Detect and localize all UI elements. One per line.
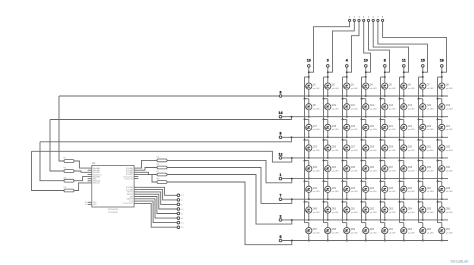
svg-text:yel-LED: yel-LED (408, 191, 416, 193)
row port 8 (279, 136, 282, 139)
LED D7 (419, 77, 434, 97)
wire U1 to port 15 (138, 201, 177, 223)
junction column 13 bypass row 4 (304, 139, 306, 141)
svg-text:yel-LED: yel-LED (389, 129, 397, 131)
wire column 8 bypass seg 4 (380, 140, 382, 161)
svg-text:7: 7 (280, 194, 282, 198)
wire left riser net 12 (32, 151, 65, 190)
wire column 13 jog row 4 (305, 139, 309, 141)
svg-text:D10: D10 (332, 104, 337, 107)
svg-text:yel-LED: yel-LED (446, 88, 454, 90)
svg-text:3: 3 (327, 59, 329, 63)
junction column 15 header feed (422, 71, 424, 73)
wire column 15 jog row 4 (419, 139, 423, 141)
wire column 8 jog row 3 (381, 118, 385, 120)
junction column 8 bypass row 5 (380, 160, 382, 162)
wire column 3 jog row 8 (324, 222, 328, 224)
wire column 11 bypass seg 2 (399, 99, 401, 120)
wire column 11 bypass seg 4 (399, 140, 401, 161)
row port 14 (279, 115, 282, 118)
svg-text:yel-LED: yel-LED (427, 129, 435, 131)
wire column 3 bypass seg 5 (323, 161, 325, 182)
wire column 4 bypass seg 3 (342, 119, 344, 140)
wire column 16 pin drop (441, 67, 443, 77)
svg-text:yel-LED: yel-LED (370, 212, 378, 214)
svg-text:yel-LED: yel-LED (408, 88, 416, 90)
LED D51 (343, 202, 358, 221)
column port 11 (403, 65, 406, 68)
wire column 16 bypass seg 7 (437, 202, 439, 223)
column port 15 (422, 65, 425, 68)
junction column 10 bypass row 3 (361, 118, 363, 120)
junction net 1 riser (291, 178, 293, 180)
wire row 5 bus (282, 240, 448, 242)
junction column 11 bypass row 6 (399, 180, 401, 182)
wire column 4 jog row 3 (343, 118, 347, 120)
svg-text:yel-LED: yel-LED (313, 88, 321, 90)
svg-text:D63: D63 (427, 228, 432, 231)
wire column 13 jog row 2 (305, 98, 309, 100)
resistor R4 (64, 187, 75, 192)
svg-text:yel-LED: yel-LED (446, 212, 454, 214)
port 4 at U1 (177, 203, 180, 206)
wire column 3 bypass seg 6 (323, 181, 325, 202)
column port 10 (365, 65, 368, 68)
LED D50 (324, 202, 339, 221)
wire column 11 bypass seg 3 (399, 119, 401, 140)
wire column 8 bypass seg 5 (380, 161, 382, 182)
resistor R1 (64, 158, 75, 163)
LED D64 (438, 223, 453, 242)
LED D12 (362, 99, 377, 118)
LED D28 (362, 140, 377, 159)
LED D24 (438, 119, 453, 138)
wire column 15 bypass seg 6 (418, 181, 420, 202)
junction column 15 top jog (422, 76, 424, 78)
svg-text:D47: D47 (427, 187, 432, 190)
svg-text:D64: D64 (446, 228, 451, 231)
wire column 15 bypass seg 5 (418, 161, 420, 182)
junction column 8 bypass row 3 (380, 118, 382, 120)
header J1 pin 5 (367, 19, 369, 21)
svg-text:D44: D44 (370, 187, 375, 190)
svg-text:D57: D57 (313, 228, 318, 231)
svg-text:D46: D46 (408, 187, 413, 190)
junction column 16 bypass row 6 (437, 180, 439, 182)
LED D38 (400, 161, 415, 180)
wire column 11 jog row 6 (400, 180, 404, 182)
wire column 3 bypass seg 3 (323, 119, 325, 140)
wire column 13 jog row 5 (305, 160, 309, 162)
wire column 16 jog row 4 (438, 139, 442, 141)
wire header pin 7 to column 15 (378, 22, 428, 73)
header J1 pin 7 (377, 19, 379, 21)
wire column 4 bypass seg 4 (342, 140, 344, 161)
LED D8 (438, 77, 453, 97)
header J1 pin 2 (353, 19, 355, 21)
wire column 15 bypass seg 3 (418, 119, 420, 140)
svg-text:yel-LED: yel-LED (332, 109, 340, 111)
svg-text:11: 11 (402, 59, 406, 63)
wire row 12 bus (282, 157, 448, 159)
LED D19 (343, 119, 358, 138)
svg-text:yel-LED: yel-LED (332, 232, 340, 234)
svg-text:yel-LED: yel-LED (351, 232, 359, 234)
wire U1 to R6 (138, 168, 157, 171)
junction column 3 bypass row 5 (323, 160, 325, 162)
LED D20 (362, 119, 377, 138)
LED D4 (362, 77, 377, 97)
wire net 8 long feeder (40, 137, 292, 142)
junction column 10 bypass row 6 (361, 180, 363, 182)
svg-text:19: 19 (85, 204, 87, 206)
wire header pin 1 to column 13 (309, 22, 350, 73)
svg-text:1: 1 (280, 173, 282, 177)
junction column 4 bypass row 3 (342, 118, 344, 120)
row port 2 (279, 219, 282, 222)
wire net 1 resistor feeder (167, 160, 292, 182)
svg-text:yel-LED: yel-LED (408, 109, 416, 111)
LED D53 (381, 202, 396, 221)
wire column 13 jog row 6 (305, 180, 309, 182)
wire column 15 top jog (419, 76, 423, 78)
wire row 2 bus (282, 219, 448, 221)
LED D31 (419, 140, 434, 159)
junction column 4 bypass row 5 (342, 160, 344, 162)
wire column 3 jog row 4 (324, 139, 328, 141)
row port 9 (279, 95, 282, 98)
wire U1 to port 11 (138, 199, 177, 218)
svg-text:yel-LED: yel-LED (389, 212, 397, 214)
wire column 11 bypass seg 7 (399, 202, 401, 223)
wire column 13 jog row 3 (305, 118, 309, 120)
wire column 3 jog row 5 (324, 160, 328, 162)
svg-text:5: 5 (280, 235, 282, 239)
svg-text:yel-LED: yel-LED (427, 191, 435, 193)
svg-text:CircuitLab: CircuitLab (451, 259, 470, 264)
wire column 15 jog row 6 (419, 180, 423, 182)
row port 12 (279, 157, 282, 160)
svg-text:D27: D27 (351, 146, 356, 149)
junction net 8 riser (291, 136, 293, 138)
resistor R2 (64, 168, 75, 173)
LED D34 (324, 161, 339, 180)
junction column 4 header feed (346, 71, 348, 73)
LED D37 (381, 161, 396, 180)
svg-text:D54: D54 (408, 208, 413, 211)
svg-text:yel-LED: yel-LED (351, 109, 359, 111)
junction column 11 bypass row 4 (399, 139, 401, 141)
svg-text:yel-LED: yel-LED (427, 171, 435, 173)
svg-text:yel-LED: yel-LED (427, 212, 435, 214)
wire column 15 jog row 8 (419, 222, 423, 224)
LED D35 (343, 161, 358, 180)
wire net 2 resistor feeder (167, 175, 292, 225)
header J1 pin 8 (382, 19, 384, 21)
wire row 9 bus (282, 95, 448, 97)
wire column 13 bypass seg 4 (304, 140, 306, 161)
junction column 13 bypass row 7 (304, 201, 306, 203)
wire column 16 jog row 3 (438, 118, 442, 120)
junction column 11 header feed (403, 71, 405, 73)
header J1 pin 3 (358, 19, 360, 21)
svg-text:yel-LED: yel-LED (408, 232, 416, 234)
wire column 16 bypass seg 2 (437, 99, 439, 120)
LED D47 (419, 181, 434, 200)
junction column 3 header feed (327, 71, 329, 73)
LED D21 (381, 119, 396, 138)
LED D44 (362, 181, 377, 200)
LED D36 (362, 161, 377, 180)
wire column 10 jog row 7 (362, 201, 366, 203)
wire column 16 jog row 5 (438, 160, 442, 162)
svg-text:D13: D13 (389, 104, 394, 107)
wire column 15 jog row 5 (419, 160, 423, 162)
junction column 3 bypass row 2 (323, 98, 325, 100)
wire net 14 long feeder (50, 117, 292, 120)
wire column 8 jog row 6 (381, 180, 385, 182)
wire header pin 3 to column 4 (347, 22, 359, 73)
svg-text:D28: D28 (370, 146, 375, 149)
LED D1 (305, 77, 320, 97)
column port 16 (441, 65, 444, 68)
svg-text:8: 8 (280, 132, 282, 136)
junction column 16 top jog (441, 76, 443, 78)
wire R3 to U1 (74, 177, 88, 181)
junction column 13 bypass row 3 (304, 118, 306, 120)
junction column 8 header feed (384, 71, 386, 73)
svg-text:yel-LED: yel-LED (313, 109, 321, 111)
svg-text:D60: D60 (370, 228, 375, 231)
svg-text:yel-LED: yel-LED (370, 150, 378, 152)
port 8 at U1 (177, 212, 180, 215)
wire row 7 bus (282, 198, 448, 200)
svg-text:yel-LED: yel-LED (389, 171, 397, 173)
wire column 15 jog row 3 (419, 118, 423, 120)
wire column 10 bypass seg 5 (361, 161, 363, 182)
wire column 4 bypass seg 7 (342, 202, 344, 223)
wire column 13 bypass seg 5 (304, 161, 306, 182)
wire column 16 bypass seg 3 (437, 119, 439, 140)
svg-text:yel-LED: yel-LED (351, 88, 359, 90)
wire column 10 jog row 3 (362, 118, 366, 120)
svg-text:D30: D30 (408, 146, 413, 149)
wire header pin 6 to column 11 (373, 22, 408, 73)
wire column 11 bypass seg 6 (399, 181, 401, 202)
wire column 11 jog row 7 (400, 201, 404, 203)
LED D46 (400, 181, 415, 200)
svg-text:D58: D58 (332, 228, 337, 231)
LED D57 (305, 223, 320, 242)
wire column 13 bypass seg 7 (304, 202, 306, 223)
svg-text:D15: D15 (427, 104, 432, 107)
port 3 at U1 (177, 199, 180, 202)
svg-text:yel-LED: yel-LED (389, 150, 397, 152)
wire column 15 bypass seg 4 (418, 140, 420, 161)
wire column 8 bypass seg 3 (380, 119, 382, 140)
LED D9 (305, 99, 320, 118)
svg-text:D16: D16 (446, 104, 451, 107)
svg-text:yel-LED: yel-LED (408, 150, 416, 152)
wire column 13 jog row 8 (305, 222, 309, 224)
LED D55 (419, 202, 434, 221)
junction column 15 bypass row 6 (418, 180, 420, 182)
svg-text:yel-LED: yel-LED (313, 129, 321, 131)
wire column 3 bypass seg 7 (323, 202, 325, 223)
wire column 4 jog row 2 (343, 98, 347, 100)
resistor R3 (64, 177, 75, 182)
wire U1 to port 10 (138, 194, 177, 209)
svg-text:yel-LED: yel-LED (332, 212, 340, 214)
svg-text:yel-LED: yel-LED (313, 150, 321, 152)
wire column 3 jog row 7 (324, 201, 328, 203)
svg-text:yel-LED: yel-LED (370, 191, 378, 193)
LED D18 (324, 119, 339, 138)
LED D60 (362, 223, 377, 242)
resistor R7 (157, 171, 168, 176)
wire net 7 resistor feeder (167, 168, 292, 204)
wire R1 to U1 (74, 161, 88, 168)
LED D52 (362, 202, 377, 221)
wire column 3 pin drop (327, 67, 329, 77)
junction column 10 bypass row 7 (361, 201, 363, 203)
svg-text:D24: D24 (446, 125, 451, 128)
wire column 15 pin drop (422, 67, 424, 77)
wire column 13 top jog (305, 76, 309, 78)
wire column 11 pin drop (403, 67, 405, 77)
resistor R8 (157, 179, 168, 184)
wire header pin 8 to column 16 (383, 22, 447, 73)
wire column 11 top jog (400, 76, 404, 78)
LED D14 (400, 99, 415, 118)
LED D56 (438, 202, 453, 221)
svg-text:D26: D26 (332, 146, 337, 149)
wire column 4 bypass seg 2 (342, 99, 344, 120)
wire column 3 bypass seg 2 (323, 99, 325, 120)
wire U1 to port 8 (138, 197, 177, 214)
LED D25 (305, 140, 320, 159)
junction column 15 bypass row 5 (418, 160, 420, 162)
wire column 10 jog row 4 (362, 139, 366, 141)
svg-text:12: 12 (279, 152, 283, 156)
wire column 8 bypass seg 1 (380, 77, 382, 99)
junction column 16 bypass row 2 (437, 98, 439, 100)
LED D49 (305, 202, 320, 221)
svg-text:D18: D18 (332, 125, 337, 128)
svg-text:yel-LED: yel-LED (332, 129, 340, 131)
svg-text:D55: D55 (427, 208, 432, 211)
wire column 11 bypass seg 1 (399, 77, 401, 99)
junction column 3 bypass row 7 (323, 201, 325, 203)
LED D39 (419, 161, 434, 180)
junction net 7 riser (291, 198, 293, 200)
wire R4 to U1 (74, 183, 88, 191)
svg-text:D37: D37 (389, 166, 394, 169)
LED D26 (324, 140, 339, 159)
wire column 3 bypass seg 1 (323, 77, 325, 99)
svg-text:yel-LED: yel-LED (370, 109, 378, 111)
svg-text:9: 9 (280, 90, 282, 94)
header J1 pin 4 (363, 19, 365, 21)
wire column 3 bypass seg 4 (323, 140, 325, 161)
svg-text:yel-LED: yel-LED (332, 88, 340, 90)
svg-text:yel-LED: yel-LED (351, 150, 359, 152)
junction column 8 bypass row 6 (380, 180, 382, 182)
LED D59 (343, 223, 358, 242)
wire column 13 bypass seg 6 (304, 181, 306, 202)
svg-text:D33: D33 (313, 166, 318, 169)
svg-text:D21: D21 (389, 125, 394, 128)
LED D29 (381, 140, 396, 159)
LED D22 (400, 119, 415, 138)
svg-text:D61: D61 (389, 228, 394, 231)
wire column 8 top jog (381, 76, 385, 78)
junction column 10 bypass row 5 (361, 160, 363, 162)
wire column 3 jog row 6 (324, 180, 328, 182)
LED D63 (419, 223, 434, 242)
wire U1 to port 3 (138, 190, 177, 200)
wire column 16 bypass seg 4 (437, 140, 439, 161)
svg-text:D14: D14 (408, 104, 413, 107)
wire column 10 bypass seg 3 (361, 119, 363, 140)
port 16 at U1 (177, 226, 180, 229)
svg-text:D52: D52 (370, 208, 375, 211)
wire column 11 jog row 2 (400, 98, 404, 100)
port 10 at U1 (177, 208, 180, 211)
column port 8 (384, 65, 387, 68)
LED D40 (438, 161, 453, 180)
svg-text:D56: D56 (446, 208, 451, 211)
wire column 16 top jog (438, 76, 442, 78)
wire U1 to port 16 (138, 203, 177, 227)
svg-text:yel-LED: yel-LED (370, 232, 378, 234)
svg-text:D45: D45 (389, 187, 394, 190)
junction column 16 bypass row 4 (437, 139, 439, 141)
junction column 16 bypass row 3 (437, 118, 439, 120)
LED D48 (438, 181, 453, 200)
wire column 4 bypass seg 1 (342, 77, 344, 99)
wire column 8 jog row 7 (381, 201, 385, 203)
port 15 at U1 (177, 221, 180, 224)
column port 4 (346, 65, 349, 68)
svg-text:D11: D11 (351, 104, 356, 107)
svg-text:D25: D25 (313, 146, 318, 149)
wire column 4 jog row 7 (343, 201, 347, 203)
wire column 16 jog row 8 (438, 222, 442, 224)
junction column 16 bypass row 7 (437, 201, 439, 203)
svg-text:D49: D49 (313, 208, 318, 211)
LED D6 (400, 77, 415, 97)
junction column 13 bypass row 2 (304, 98, 306, 100)
svg-text:D50: D50 (332, 208, 337, 211)
wire net 9 long feeder (59, 95, 279, 97)
wire column 13 bypass seg 1 (304, 77, 306, 99)
junction column 10 bypass row 4 (361, 139, 363, 141)
wire column 11 bypass seg 5 (399, 161, 401, 182)
LED D30 (400, 140, 415, 159)
wire U1 to port 4 (138, 192, 177, 205)
svg-text:yel-LED: yel-LED (389, 109, 397, 111)
svg-text:RC4/C2OUT: RC4/C2OUT (123, 203, 133, 205)
svg-text:yel-LED: yel-LED (389, 88, 397, 90)
LED D16 (438, 99, 453, 118)
svg-text:yel-LED: yel-LED (389, 232, 397, 234)
LED D62 (400, 223, 415, 242)
wire U1 to R8 (138, 174, 157, 182)
svg-text:D34: D34 (332, 166, 337, 169)
wire column 16 bypass seg 1 (437, 77, 439, 99)
row port 5 (279, 239, 282, 242)
